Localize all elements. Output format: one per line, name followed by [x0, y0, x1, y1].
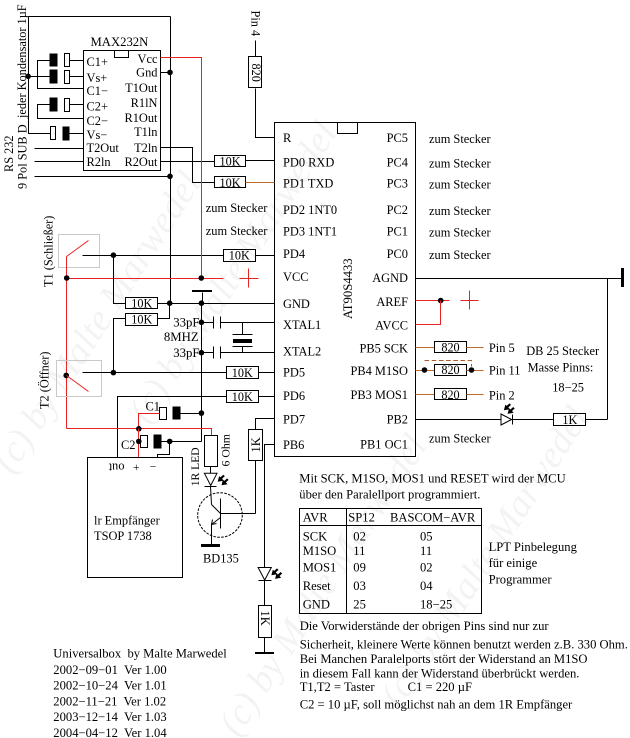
svg-text:02: 02	[420, 561, 433, 575]
svg-text:Reset: Reset	[303, 579, 331, 593]
svg-text:VCC: VCC	[283, 270, 308, 284]
svg-text:C1−: C1−	[87, 84, 108, 98]
svg-text:PB6: PB6	[283, 438, 304, 452]
wire T2In to R17	[161, 148, 215, 183]
capacitor C4 33pF plates	[214, 317, 221, 329]
svg-text:LPT Pinbelegung: LPT Pinbelegung	[489, 540, 578, 554]
wire R28 to Pin2 orange	[467, 394, 484, 396]
LED D1 arrows	[218, 475, 225, 482]
wire R15 to R pin	[256, 89, 275, 138]
svg-text:PB2: PB2	[387, 413, 408, 427]
wire AGND branch down	[607, 279, 609, 420]
svg-text:18−25: 18−25	[552, 381, 584, 395]
switch T2 contact red	[67, 376, 89, 392]
svg-text:zum Stecker: zum Stecker	[429, 157, 491, 171]
wire R26 to Pin5 orange	[467, 347, 484, 349]
junction dot T2 red	[63, 373, 69, 379]
wire D2 to R29	[513, 419, 554, 421]
transistor Q2 emitter diagonal	[212, 518, 221, 525]
crystal Q1 bottom plate	[233, 346, 253, 348]
svg-text:T2 (Öffner): T2 (Öffner)	[38, 352, 52, 409]
svg-text:8MHZ: 8MHZ	[164, 330, 199, 344]
svg-text:09: 09	[353, 561, 366, 575]
junction dot AREF	[438, 298, 444, 304]
wire R19 to T1 node	[114, 256, 126, 304]
ground bar LED2	[255, 652, 274, 654]
wire C2 to IR minus pin	[158, 442, 170, 458]
wire R27 to Pin11 orange	[467, 370, 484, 372]
resistor R15 820 body	[249, 57, 262, 88]
svg-text:C2: C2	[121, 438, 135, 452]
wire GND row	[158, 303, 275, 305]
wire LED1 to Q2 collector	[211, 487, 212, 505]
LED D3 triangle	[258, 568, 271, 581]
svg-text:PD3 1NT1: PD3 1NT1	[283, 225, 337, 239]
svg-text:TSOP 1738: TSOP 1738	[94, 529, 152, 543]
wire R24 to Q2 base	[255, 461, 257, 514]
svg-text:R2Out: R2Out	[124, 155, 158, 169]
svg-text:PC0: PC0	[387, 247, 408, 261]
LED D1 cathode bar	[205, 486, 217, 488]
wire PB6 down to LED2	[265, 445, 275, 568]
junction dot VCC at C3	[199, 275, 205, 281]
svg-text:Masse Pinns:: Masse Pinns:	[528, 361, 594, 375]
svg-text:lr Empfänger: lr Empfänger	[94, 514, 161, 528]
wire C4 to XTAL1	[221, 322, 275, 324]
svg-text:Programmer: Programmer	[489, 572, 553, 586]
resistor R28 820 body	[435, 389, 467, 400]
wire AREF red	[416, 300, 450, 302]
wire red to IR plus pin	[138, 429, 140, 458]
junction dot left rail Vs+	[25, 74, 31, 80]
svg-text:1K: 1K	[562, 413, 577, 427]
capacitor C1+ plate hollow	[65, 54, 70, 67]
svg-text:C1+: C1+	[87, 55, 108, 69]
svg-text:Vs−: Vs−	[87, 128, 108, 142]
svg-text:GND: GND	[283, 297, 310, 311]
svg-text:SP12: SP12	[348, 511, 375, 525]
resistor R27 820 body	[435, 365, 467, 376]
svg-text:PB4 M1SO: PB4 M1SO	[350, 364, 408, 378]
IC U2 AT90S4433 body	[275, 123, 416, 457]
junction dot C2 red	[136, 439, 142, 445]
LED D2 triangle	[501, 414, 512, 425]
wire Gnd pin stub	[161, 72, 171, 74]
dashed bridge wire MISO	[425, 361, 472, 367]
svg-text:zum Stecker: zum Stecker	[429, 132, 491, 146]
junction dot T1 node	[111, 252, 117, 258]
junction dot red bottom	[136, 426, 142, 432]
capacitor C2 plate hollow	[141, 436, 148, 448]
svg-text:11: 11	[353, 544, 365, 558]
svg-text:R2ln: R2ln	[87, 155, 111, 169]
svg-text:Sicherheit, kleinere Werte kön: Sicherheit, kleinere Werte können benutz…	[300, 638, 628, 652]
svg-text:T1,T2 = Taster: T1,T2 = Taster	[300, 680, 376, 694]
capacitor C2+ plate filled	[50, 98, 57, 111]
wire R16 to PD0	[246, 160, 275, 162]
svg-text:XTAL1: XTAL1	[283, 318, 321, 332]
svg-text:RS 232: RS 232	[2, 135, 16, 172]
wire LED2 to R25	[264, 581, 266, 606]
svg-text:PC1: PC1	[387, 225, 408, 239]
svg-text:−: −	[150, 461, 157, 473]
svg-text:Pin 11: Pin 11	[489, 364, 521, 378]
wire R20 left to T2 node	[114, 319, 126, 373]
wire PD7 to R24	[256, 419, 275, 430]
junction dot C1 node	[199, 410, 205, 416]
IC U1 notch	[115, 51, 129, 58]
capacitor Vs- plate filled	[63, 127, 69, 140]
svg-text:Pin 2: Pin 2	[489, 389, 515, 403]
svg-text:PD6: PD6	[283, 389, 305, 403]
svg-text:zum Stecker: zum Stecker	[429, 178, 491, 192]
svg-text:C2+: C2+	[87, 100, 108, 114]
VCC plus cross symbol	[240, 269, 259, 288]
wire C2 right	[161, 441, 202, 443]
junction dot GND row left	[167, 300, 173, 306]
svg-text:10K: 10K	[131, 297, 152, 311]
svg-text:PC4: PC4	[387, 156, 408, 170]
svg-text:2004−04−12 Ver 1.04: 2004−04−12 Ver 1.04	[53, 726, 167, 738]
wire connector ground	[35, 176, 171, 178]
connector terminal bar AGND	[621, 268, 624, 287]
transistor Q2 circle	[198, 493, 243, 538]
svg-text:T2Out: T2Out	[87, 141, 120, 155]
svg-text:03: 03	[353, 579, 366, 593]
svg-text:PC3: PC3	[387, 177, 408, 191]
svg-text:11: 11	[420, 544, 432, 558]
crystal Q1 body	[233, 339, 252, 343]
svg-text:C2 = 10 µF, soll möglichst nah: C2 = 10 µF, soll möglichst nah an dem 1R…	[300, 698, 573, 712]
svg-text:9 Pol SUB D: 9 Pol SUB D	[16, 124, 30, 189]
wire PB2 to D2	[416, 419, 501, 421]
wire R25 to ground	[264, 638, 266, 653]
svg-text:R1lN: R1lN	[131, 96, 158, 110]
wire C1 right to node	[181, 413, 202, 415]
wire R29 to AGND branch	[586, 419, 608, 421]
svg-text:AVR: AVR	[303, 511, 329, 525]
junction dot T2 node	[111, 370, 117, 376]
LED D3 arrows	[271, 568, 278, 575]
capacitor Vs- plate hollow	[51, 127, 56, 140]
ground bar Q2 emitter	[201, 544, 220, 547]
svg-text:04: 04	[420, 579, 433, 593]
wire R2In to connector	[35, 161, 84, 163]
resistor R26 820 body	[435, 342, 467, 353]
svg-text:Gnd: Gnd	[136, 66, 158, 80]
capacitor C3 top plate bar	[192, 290, 212, 292]
svg-text:C1: C1	[146, 399, 160, 413]
svg-text:1K: 1K	[249, 437, 263, 452]
capacitor C2 plate filled	[154, 435, 161, 448]
svg-text:1K: 1K	[258, 611, 272, 626]
junction dot PB4 left	[422, 367, 428, 373]
transistor Q2 base wire	[221, 513, 256, 515]
capacitor C1+ plate filled	[50, 54, 57, 66]
svg-text:zum Stecker: zum Stecker	[429, 248, 491, 262]
svg-text:PC2: PC2	[387, 203, 408, 217]
svg-text:C2−: C2−	[87, 114, 108, 128]
svg-text:T1ln: T1ln	[134, 125, 157, 139]
wire VCC red net horizontal	[67, 278, 224, 280]
wire C3 to GND net	[202, 293, 204, 304]
switch T1 body box	[59, 235, 100, 268]
wire PB3 to R28 orange	[416, 394, 435, 396]
svg-text:PD1 TXD: PD1 TXD	[283, 177, 333, 191]
IR receiver box	[88, 458, 183, 578]
wire C5 left	[202, 352, 214, 354]
resistor R20 10K body XTAL row	[126, 314, 158, 326]
wire PB4 to R27 orange	[416, 370, 435, 372]
svg-text:+: +	[133, 462, 140, 474]
svg-text:für einige: für einige	[489, 556, 538, 570]
svg-text:Bei Manchen Paralelports stört: Bei Manchen Paralelports stört der Wider…	[300, 652, 588, 666]
svg-text:18−25: 18−25	[420, 598, 452, 612]
wire C2+ cap to C2- pin	[38, 105, 84, 119]
svg-text:Die Vorwiderstände der obrigen: Die Vorwiderstände der obrigen Pins sind…	[300, 619, 550, 633]
LED D1 triangle	[204, 473, 217, 485]
wire ground left rail	[29, 17, 51, 134]
svg-text:2002−11−21 Ver 1.02: 2002−11−21 Ver 1.02	[53, 694, 166, 708]
svg-text:10K: 10K	[232, 366, 253, 380]
crystal Q1 bottom stub	[242, 347, 244, 353]
wire AGND row	[416, 278, 623, 280]
wire C5 to XTAL2	[221, 352, 275, 354]
wire T1 pole to R18	[83, 255, 224, 257]
svg-text:1R LED: 1R LED	[189, 447, 202, 486]
svg-text:jeder Kondensator 1µF: jeder Kondensator 1µF	[15, 4, 29, 119]
capacitor C5 33pF plates	[214, 347, 221, 359]
wire C2+ cap to pin	[70, 104, 84, 106]
svg-text:PC5: PC5	[387, 131, 408, 145]
svg-text:6 Ohm: 6 Ohm	[219, 434, 233, 466]
resistor R29 1K body	[554, 414, 586, 426]
junction dot VCC at T1	[64, 275, 70, 281]
svg-text:MOS1: MOS1	[303, 561, 337, 575]
svg-text:zum Stecker: zum Stecker	[206, 201, 268, 215]
svg-text:820: 820	[441, 363, 459, 377]
IC U1 MAX232N body	[84, 51, 161, 171]
wire R22 to PD6	[259, 396, 275, 398]
svg-text:BASCOM−AVR: BASCOM−AVR	[390, 511, 476, 525]
svg-text:zum Stecker: zum Stecker	[429, 204, 491, 218]
junction dot PB4 right	[469, 367, 475, 373]
svg-text:2002−09−01 Ver 1.00: 2002−09−01 Ver 1.00	[53, 663, 166, 677]
transistor Q2 base bar	[220, 499, 222, 529]
wire VCC red net vertical from MAX232	[161, 58, 202, 279]
svg-text:SCK: SCK	[303, 530, 328, 544]
svg-text:05: 05	[420, 530, 433, 544]
svg-text:25: 25	[353, 598, 366, 612]
wire Pin4 to R15	[255, 41, 257, 57]
wire R21 to PD5	[259, 372, 275, 374]
transistor Q2 emitter wire	[211, 525, 213, 545]
svg-text:C1 = 220 µF: C1 = 220 µF	[408, 680, 472, 694]
svg-text:DB 25 Stecker: DB 25 Stecker	[526, 344, 600, 358]
svg-text:10K: 10K	[229, 249, 250, 263]
svg-text:PB5 SCK: PB5 SCK	[359, 341, 408, 355]
resistor R25 1K body	[259, 606, 272, 638]
capacitor C2+ plate hollow	[65, 99, 70, 112]
svg-text:zum Stecker: zum Stecker	[429, 226, 491, 240]
LED D2 arrows	[504, 403, 511, 410]
svg-text:MAX232N: MAX232N	[91, 35, 149, 49]
wire ground vertical net	[170, 17, 172, 304]
svg-text:T2ln: T2ln	[134, 141, 157, 155]
svg-text:820: 820	[441, 341, 459, 355]
svg-text:10K: 10K	[220, 154, 241, 168]
wire PB5 to R26 orange	[416, 347, 435, 349]
wire R20 right to GND net	[158, 304, 170, 319]
resistor R22 10K body PD6	[227, 391, 259, 403]
LED D2 cathode bar	[512, 415, 514, 425]
svg-text:2002−10−24 Ver 1.01: 2002−10−24 Ver 1.01	[53, 679, 166, 693]
wire R17 to PD1 orange	[246, 182, 275, 184]
wire C1 left red	[139, 414, 160, 429]
resistor R21 10K body PD5	[227, 367, 259, 379]
wire C1+ cap to pin	[70, 60, 84, 62]
AREF plus cross symbol	[461, 291, 479, 310]
svg-text:820: 820	[249, 64, 263, 82]
wire R2Out to R16	[161, 161, 215, 163]
svg-text:AREF: AREF	[376, 295, 408, 309]
svg-text:AGND: AGND	[372, 271, 408, 285]
wire VCC red bottom row	[67, 429, 212, 436]
svg-text:Pin 5: Pin 5	[489, 341, 515, 355]
wire central vertical net	[201, 304, 203, 442]
svg-text:über den Paralellport programm: über den Paralellport programmiert.	[299, 487, 480, 501]
svg-text:PD4: PD4	[283, 247, 305, 261]
svg-text:02: 02	[353, 530, 366, 544]
svg-text:BD135: BD135	[203, 552, 239, 566]
svg-text:33pF: 33pF	[173, 346, 199, 360]
resistor R19 10K body GND row	[126, 298, 158, 309]
svg-text:10K: 10K	[131, 312, 152, 326]
svg-text:33pF: 33pF	[173, 315, 199, 329]
wire AREF to AVCC red	[416, 301, 441, 325]
svg-text:PD0 RXD: PD0 RXD	[283, 156, 334, 170]
crystal Q1 top plate	[233, 334, 253, 336]
wire IR out to R22	[118, 397, 227, 458]
svg-text:zum Stecker: zum Stecker	[206, 224, 268, 238]
wire R23 to LED1	[210, 467, 212, 474]
wire T2 pole to R21	[83, 372, 227, 374]
svg-text:T1Out: T1Out	[125, 81, 158, 95]
junction dot Gnd	[167, 70, 173, 76]
junction dot connector ground	[167, 174, 173, 180]
svg-text:10K: 10K	[232, 390, 253, 404]
transistor Q2 collector diagonal	[212, 505, 221, 514]
transistor Q2 emitter arrowhead	[212, 520, 217, 525]
resistor R24 1K body	[249, 430, 263, 461]
wire Vs+ cap to pin	[70, 76, 84, 78]
junction dot GND row right	[199, 300, 205, 306]
svg-text:PB1 OC1: PB1 OC1	[360, 437, 408, 451]
svg-text:M1SO: M1SO	[303, 544, 337, 558]
svg-text:out: out	[108, 461, 124, 475]
svg-text:zum Stecker: zum Stecker	[429, 431, 491, 445]
svg-text:R: R	[283, 131, 292, 145]
svg-text:GND: GND	[303, 598, 330, 612]
svg-text:10K: 10K	[220, 176, 241, 190]
wire C4 left	[202, 322, 214, 324]
svg-text:in diesem Fall kann der Widers: in diesem Fall kann der Widerstand überb…	[300, 667, 580, 681]
IC U2 notch	[338, 123, 358, 134]
wire Vs- cap to pin	[70, 133, 84, 135]
crystal Q1 8MHZ top stub	[242, 323, 244, 335]
capacitor Vs+ plate hollow	[65, 71, 70, 84]
svg-text:2003−12−14 Ver 1.03: 2003−12−14 Ver 1.03	[53, 710, 166, 724]
junction dot XTAL1	[199, 320, 205, 326]
svg-text:XTAL2: XTAL2	[283, 345, 321, 359]
wire ground top rail	[29, 16, 171, 18]
capacitor C1 plate hollow	[160, 408, 167, 420]
wire R18 to PD4	[256, 255, 275, 257]
switch T1 contact red	[67, 241, 89, 257]
LED D3 cathode bar	[259, 580, 272, 582]
svg-text:PD7: PD7	[283, 413, 305, 427]
svg-text:Pin 4: Pin 4	[249, 11, 263, 37]
capacitor C1 plate filled	[173, 407, 180, 419]
junction dot XTAL2	[199, 350, 205, 356]
svg-text:Mit SCK, M1SO, MOS1 und RESET: Mit SCK, M1SO, MOS1 und RESET wird der M…	[299, 472, 565, 486]
svg-text:Universalbox by Malte Marwede: Universalbox by Malte Marwedel	[53, 647, 227, 661]
svg-text:Vcc: Vcc	[138, 52, 158, 66]
svg-text:AVCC: AVCC	[375, 319, 408, 333]
wire T2Out to connector	[35, 148, 84, 150]
svg-text:AT90S4433: AT90S4433	[341, 258, 355, 319]
resistor R16 10K body PD0	[215, 156, 246, 167]
resistor R17 10K body PD1	[215, 177, 246, 188]
wire C1+ cap to C1- pin	[38, 61, 84, 89]
table pin mapping box	[300, 509, 482, 614]
svg-text:R1Out: R1Out	[124, 111, 158, 125]
resistor R23 6 Ohm body	[205, 436, 218, 467]
capacitor Vs+ plate filled	[50, 70, 57, 83]
switch T2 body box	[57, 361, 102, 397]
junction dot C2 node	[167, 439, 173, 445]
resistor R18 10K body PD4	[224, 250, 256, 262]
svg-text:PD2 1NT0: PD2 1NT0	[283, 203, 337, 217]
wire Vs+ cap to rail	[29, 76, 51, 78]
svg-text:T1 (Schließer): T1 (Schließer)	[42, 216, 56, 287]
wire VCC red T1-T2 vertical	[66, 257, 68, 429]
svg-text:820: 820	[441, 388, 459, 402]
svg-text:PB3 MOS1: PB3 MOS1	[350, 388, 408, 402]
svg-text:PD5: PD5	[283, 365, 305, 379]
